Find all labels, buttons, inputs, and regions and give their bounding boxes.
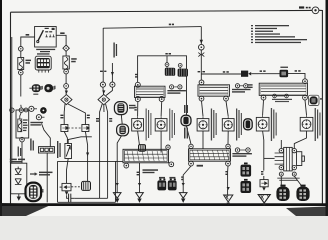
caption above F3 <box>280 67 288 68</box>
dark ribbed connector D1 <box>165 67 175 76</box>
wire text column near x112 <box>113 43 117 58</box>
wire: C3 to splice diamond J1 <box>65 88 67 94</box>
junction connector block JB1 <box>135 86 166 97</box>
wire label 2 <box>134 107 136 111</box>
scan edge right <box>326 0 328 216</box>
dark connector pair P2 <box>168 179 177 190</box>
connector circle on F1 chain (top) <box>19 47 24 52</box>
text column right of INJ6 <box>315 108 321 141</box>
connector circle C3 on F2 chain <box>64 84 69 89</box>
ignition switch contact ST1 <box>52 35 54 37</box>
text column right of INJ4 <box>236 109 242 141</box>
wire: bar1 bottom to ground G2 <box>139 163 141 193</box>
wire: strip up to circle pair <box>42 124 51 147</box>
AM2 box terminal circle top-right <box>24 108 28 112</box>
scan edge bottom-right corner <box>286 207 328 217</box>
idle air control valve body <box>275 147 305 171</box>
AM2 box value labels <box>23 119 28 131</box>
ignition switch lever <box>38 30 44 41</box>
label column under AM2 box <box>18 147 22 157</box>
dark oval connector V1 <box>276 186 289 201</box>
valve bottom-right terminal circle <box>292 165 296 169</box>
ignition switch terminal labels <box>45 28 55 33</box>
JB2 top-left connector circle <box>199 80 204 85</box>
ground G1 <box>113 183 121 203</box>
wire: INJ3 down to ECU bar2 <box>202 131 204 149</box>
wire label 1L <box>60 115 63 119</box>
arrow below connector <box>262 187 266 191</box>
wire: JB3 to INJ5 <box>262 100 265 115</box>
arrow connector right chain <box>260 176 268 187</box>
wire: AM2 box bottom to generator diode box <box>21 142 23 163</box>
connector circle C4 <box>100 82 105 87</box>
ribbed connector in loop <box>82 181 91 190</box>
label ticks right of connector A <box>42 86 43 89</box>
injector INJ6 (resistor) <box>300 115 313 131</box>
ECU bar2 label under left edge <box>197 165 203 167</box>
inline oval connector on branch wire <box>181 115 191 126</box>
injector INJ4 <box>222 116 234 131</box>
wire: inline oval to ECU bar2 top-left <box>186 126 191 144</box>
ECU connector bar 1 <box>123 149 169 163</box>
wire: INJ6 to valve top <box>294 131 306 148</box>
AM2 box terminal circle top-left <box>19 108 23 112</box>
arrow connector (male-female) right <box>82 125 89 132</box>
wire: ignition switch left to fuse chain F1 <box>21 37 35 46</box>
label ticks right of connector B <box>54 86 55 89</box>
3-pin inline connector strip <box>39 147 55 153</box>
connector circle C5 <box>110 82 115 87</box>
junction connector block JB3 (far right) <box>259 83 307 95</box>
ECU connector bar 2 <box>189 149 231 161</box>
wire: INJ4 down to ECU bar2 <box>227 131 229 144</box>
JB1 bottom-left connector circle <box>135 97 140 102</box>
valve lower connector circle left <box>279 172 283 176</box>
short wire with arrow into circle C5 <box>111 63 114 82</box>
wire: check component top to loop line <box>68 137 92 144</box>
dark ribbed connector D2 <box>178 67 188 76</box>
ground G4 (hatched) <box>224 187 233 205</box>
wire label ticks <box>260 70 266 72</box>
wire: valve bottom-left to connector <box>280 176 282 186</box>
fuse F2 (15A EFI) <box>63 51 69 69</box>
connector circle C6 on right drop <box>199 40 205 50</box>
ECU bar1 left corner circle <box>124 163 129 168</box>
JB3 bottom-left connector circle <box>261 95 266 100</box>
connector circle above D2 <box>178 64 182 68</box>
text column right of INJ3 <box>211 109 217 141</box>
oval connector stack upper (ECU plug) <box>114 102 127 115</box>
AM2 fuse box <box>16 110 29 138</box>
wire label ticks G4 wire <box>225 171 227 175</box>
big oval connector (bulkhead) <box>26 183 44 202</box>
wire: C6 down to corner junction <box>200 50 202 80</box>
fuse F2 value label <box>71 58 77 62</box>
wire label 1b <box>135 74 138 78</box>
wire label ** on top wire <box>169 24 174 26</box>
wire: check component to relay connector <box>67 159 69 184</box>
ignition switch contact IG1 <box>49 35 51 37</box>
label M-8 near joint circle <box>299 6 311 8</box>
splice diamond J1 <box>61 91 72 105</box>
inline fuse F3 (dark) <box>280 70 289 77</box>
fuse F1 value label 15A EFI <box>26 60 32 64</box>
wire: valve bottom-right to connector <box>294 176 302 186</box>
small ribbed connector below INJ1 <box>139 145 146 152</box>
ground arrow under diode box <box>17 194 21 201</box>
valve top-right terminal circle <box>292 148 296 152</box>
ground G3 <box>179 183 187 203</box>
caption below oval connectors <box>33 94 38 95</box>
JB3 top-right connector circle <box>303 79 308 84</box>
JB1 side connector circles (right) <box>170 85 182 89</box>
wire: upper oval to lower oval <box>120 115 123 125</box>
FL MAIN connector block <box>35 56 51 70</box>
wire: J2 left leg down to loop top <box>100 104 103 198</box>
diode symbol 2 <box>15 179 22 185</box>
ECU bar1 caption <box>143 169 159 173</box>
connector circle on F2 chain <box>64 69 69 74</box>
oval connector right of JB3 <box>308 95 319 105</box>
ECU bar2 right corner circle <box>226 161 231 166</box>
wire: JB1 to INJ1 <box>137 102 139 117</box>
wire: left arrow connector down to check component <box>64 132 67 144</box>
caption right of upper oval <box>129 105 136 109</box>
diamond connector on F2 chain <box>63 45 69 51</box>
caption right of oval connector <box>320 98 322 99</box>
text above inline oval <box>184 105 188 113</box>
oval connector stack lower <box>117 124 129 136</box>
ground G5 (hatched triangle) <box>258 195 270 206</box>
connector circle upper near grommet <box>29 106 37 111</box>
wire from top wire into valve section <box>263 131 264 171</box>
wire: JB3 right to INJ6 <box>305 100 307 115</box>
AM2 box terminal circle bottom <box>20 137 25 142</box>
wire label on left drop <box>100 71 106 72</box>
small oval connector left of INJ5 <box>244 119 253 130</box>
connector wings below C6 <box>198 53 204 57</box>
ignition switch caption <box>36 49 55 52</box>
FL MAIN caption <box>37 53 50 54</box>
wire: JB1 right to INJ2 <box>160 102 163 117</box>
generator diode box <box>11 163 27 194</box>
arrow to charging system caption <box>30 172 53 176</box>
border frame <box>11 10 323 204</box>
scan edge bottom-left corner <box>0 203 52 216</box>
stub to ribbed connector D1 <box>166 56 168 63</box>
caption block right of AM2 box <box>30 122 43 126</box>
loop wire right vertical <box>115 161 117 202</box>
ECU bar1 right corner circle <box>169 162 174 167</box>
JB2 bottom-right connector circle <box>224 96 229 101</box>
JB3 bottom-right connector circle <box>303 95 308 100</box>
valve top-left terminal circle <box>279 148 283 152</box>
loop wire left vertical <box>57 161 59 202</box>
splice diamond J2 <box>98 87 112 112</box>
wire: ignition switch right to fuse chain F2 <box>56 35 66 45</box>
inline connector with arrow on y74 wire <box>241 71 258 77</box>
wire: J2 right leg down to loop inner <box>106 104 108 198</box>
wire label AM2 <box>60 32 64 34</box>
JB2 caption <box>232 89 251 93</box>
text column right of INJ1 <box>146 109 152 141</box>
capacitor (noise filter) <box>69 194 75 203</box>
ECU bar2 caption circles pair right <box>235 148 250 152</box>
wire: into AM2 fuse box <box>12 37 21 163</box>
FL MAIN pin stubs <box>39 70 49 73</box>
wire: left drop x103 to circle C4 <box>102 28 104 82</box>
loop wire bottom horizontal <box>58 201 116 203</box>
arrow connector (male-female) left <box>61 125 68 132</box>
injector INJ3 <box>197 116 209 131</box>
oval connector B (dark, round) <box>44 84 54 92</box>
dashed link relay to ribbed connector <box>71 186 81 188</box>
wire: right arrow connector down to loop <box>85 132 89 182</box>
injector INJ2 <box>155 116 167 131</box>
wire label 1K <box>87 115 90 119</box>
check connector component <box>65 144 72 159</box>
text column right of INJ5 <box>271 108 277 141</box>
stub to valve left <box>264 157 275 159</box>
loop inner bottom wire to capacitor <box>75 197 108 199</box>
wire: bar2 right circle to ground G4 <box>227 166 229 195</box>
wire: splice J1 to arrow connector right <box>68 104 85 125</box>
caption right of check component <box>57 141 61 158</box>
ECU bar2 top-left corner circle <box>189 144 193 148</box>
grommet (dark dot) <box>40 107 47 114</box>
connector circle on F1 chain (bottom) <box>19 70 24 75</box>
junction connector block JB2 <box>198 85 230 96</box>
wire label ticks G2 wire <box>137 172 139 176</box>
valve caption <box>277 178 299 181</box>
JB2 bottom-left connector circle <box>199 96 204 101</box>
caption above diode box <box>10 159 25 163</box>
wire: F2 to splice <box>65 74 67 84</box>
ECU bar1 top-right corner circle <box>166 145 170 149</box>
wire: right drop x201 from top wire <box>200 27 202 45</box>
text column right of INJ2 <box>169 109 175 141</box>
fusible link AM2 symbol <box>18 112 22 131</box>
ECU bar2 left corner circle <box>189 161 194 166</box>
wire: F1 chain down to ring connectors <box>20 75 22 97</box>
wire: splice J1 to arrow connector left <box>63 104 66 125</box>
ECU bar2 top-right corner circle <box>226 144 230 148</box>
branch wire y55.8 over junction box JB1 <box>138 56 187 115</box>
loop wire top horizontal <box>58 160 124 162</box>
JB3 caption below <box>272 99 292 102</box>
border frame bottom thick line <box>2 203 326 206</box>
fuse F1 (15A EFI) <box>18 51 24 69</box>
stacked dark connector S1 <box>241 163 252 176</box>
wire: strip down to bottom rail <box>46 153 48 202</box>
top long wire from node at x103.5 to x201.5 <box>103 27 201 29</box>
horizontal feed wire y74 to right section <box>201 73 241 75</box>
JB1 caption <box>167 90 186 94</box>
text below inline oval <box>184 128 188 139</box>
diode symbol 1 <box>15 167 22 175</box>
wire label B <box>26 34 30 36</box>
relay connector (arrow box) in loop <box>60 183 71 190</box>
stacked dark connector S2 <box>241 180 252 193</box>
wire: F3 to corner x305 <box>288 73 306 79</box>
ECU bar2 caption <box>232 153 252 157</box>
caption above P1 P2 <box>159 177 175 179</box>
ground G2 <box>136 183 144 203</box>
wire relay connector to capacitor <box>67 195 69 198</box>
injector INJ1 <box>132 116 144 131</box>
wire: INJ1 down to ribbed connector <box>138 131 140 146</box>
connector circle lower staggered <box>36 115 44 120</box>
scan edge left <box>0 0 2 216</box>
wire: JB2 right to INJ4 <box>226 101 228 116</box>
JB3 bottom terminal circles <box>273 94 289 98</box>
ignition switch contact AM1 <box>45 35 47 37</box>
wire: valve top-left up <box>280 140 282 148</box>
injector INJ5 (cold start) <box>256 115 269 131</box>
wire continues y74 to fuse F3 <box>258 73 280 75</box>
wire label ticks G3 wire <box>181 176 183 180</box>
oval connector A (dark, with pins) <box>29 84 42 92</box>
dark connector pair P1 <box>157 179 166 190</box>
valve lower connector circle right <box>292 172 296 176</box>
wire label on right drop <box>198 71 205 72</box>
JB3 caption left <box>248 84 253 88</box>
wire: bar2 left circle to ground G3 <box>183 166 191 193</box>
legend note list (top right) <box>251 25 307 43</box>
ignition switch SW1 box <box>35 27 57 48</box>
dark oval connector V2 <box>296 186 309 201</box>
JB1 bottom-right connector circle <box>159 97 164 102</box>
dashed link between arrow connectors <box>68 127 82 129</box>
arrow below relay connector <box>65 191 69 195</box>
wire label ticks <box>261 171 263 175</box>
wire: lower oval down to ground G1 <box>117 136 121 193</box>
wire: JB2 to INJ3 <box>202 101 204 116</box>
wire end circle on left bus at AM2 box <box>10 108 14 112</box>
wire: INJ2 down to ECU bar <box>160 131 162 153</box>
wire label ** on branch <box>165 53 171 55</box>
text column left margin <box>30 139 34 151</box>
JB2 side connector circles <box>235 84 247 88</box>
valve bottom-left terminal circle <box>279 165 283 169</box>
wire label ticks <box>295 70 301 72</box>
JB1 top-left connector circle <box>135 82 140 87</box>
page joint circle (top right) <box>310 7 319 14</box>
wire labels 1J on parallel drop <box>96 118 112 122</box>
connector circle above D1 <box>165 63 169 67</box>
wire label ticks on y74 wire <box>223 71 229 73</box>
